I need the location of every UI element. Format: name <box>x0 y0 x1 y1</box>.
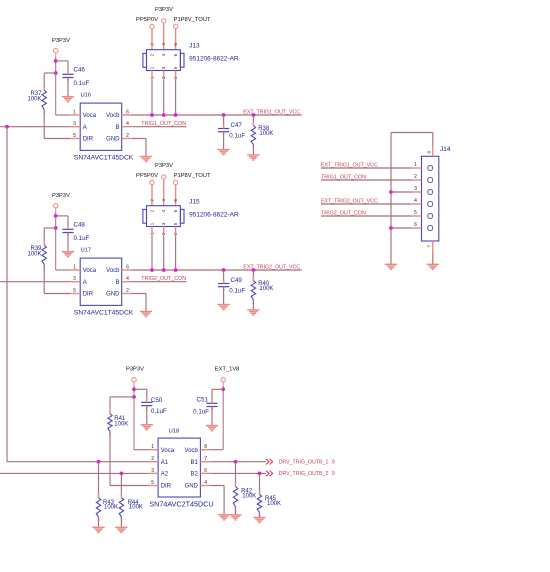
svg-text:5: 5 <box>414 210 417 216</box>
svg-text:DIR: DIR <box>83 292 94 298</box>
svg-text:0.1uF: 0.1uF <box>74 80 90 87</box>
svg-text:0.1uF: 0.1uF <box>229 133 245 140</box>
svg-text:U17: U17 <box>81 247 92 253</box>
svg-text:6: 6 <box>126 110 129 116</box>
svg-text:C49: C49 <box>231 277 243 284</box>
svg-text:Vocb: Vocb <box>106 113 120 119</box>
svg-text:3: 3 <box>73 121 76 127</box>
svg-text:2: 2 <box>126 288 129 294</box>
svg-text:1: 1 <box>150 66 155 69</box>
svg-text:B1: B1 <box>191 460 199 466</box>
svg-text:3: 3 <box>161 222 166 225</box>
svg-text:P3P3V: P3P3V <box>126 367 144 373</box>
svg-text:Vocb: Vocb <box>185 448 199 454</box>
svg-text:EXT_TRIG1_OUT_VCC: EXT_TRIG1_OUT_VCC <box>321 163 378 169</box>
svg-text:1: 1 <box>73 265 76 271</box>
svg-text:5: 5 <box>73 288 76 294</box>
svg-text:A: A <box>83 125 87 131</box>
svg-text:DRV_TRIG_OUTB_1: DRV_TRIG_OUTB_1 <box>279 460 329 466</box>
svg-text:3: 3 <box>73 276 76 282</box>
svg-text:0.1uF: 0.1uF <box>193 408 209 415</box>
svg-text:1: 1 <box>414 162 417 168</box>
svg-text:1: 1 <box>151 444 154 450</box>
svg-text:A2: A2 <box>161 472 169 478</box>
svg-text:0.1uF: 0.1uF <box>151 408 167 415</box>
svg-text:J13: J13 <box>189 43 200 50</box>
svg-text:PP5P0V: PP5P0V <box>136 17 158 23</box>
svg-text:2: 2 <box>414 174 417 180</box>
svg-text:2: 2 <box>150 53 155 56</box>
svg-text:951206-8622-AR: 951206-8622-AR <box>189 56 239 63</box>
svg-text:EXT_1V8: EXT_1V8 <box>215 367 240 373</box>
svg-text:B2: B2 <box>191 472 199 478</box>
svg-text:6: 6 <box>173 53 178 56</box>
svg-text:7: 7 <box>427 245 432 248</box>
svg-text:8: 8 <box>427 151 432 154</box>
svg-text:7: 7 <box>204 456 207 462</box>
svg-text:4: 4 <box>126 276 129 282</box>
svg-text:6: 6 <box>173 43 178 46</box>
svg-text:5: 5 <box>151 480 154 486</box>
svg-text:TRIG2_OUT_CON: TRIG2_OUT_CON <box>141 276 186 282</box>
svg-text:U18: U18 <box>169 428 180 434</box>
svg-text:GND: GND <box>106 292 120 298</box>
svg-text:J14: J14 <box>440 146 451 153</box>
svg-text:100K: 100K <box>27 96 41 102</box>
svg-text:2: 2 <box>150 43 155 46</box>
svg-text:B: B <box>115 125 119 131</box>
svg-text:C48: C48 <box>74 222 86 229</box>
svg-text:100K: 100K <box>259 131 273 137</box>
svg-text:3: 3 <box>414 186 417 192</box>
svg-text:2: 2 <box>150 199 155 202</box>
svg-text:P3P3V: P3P3V <box>52 193 70 199</box>
svg-text:0.1uF: 0.1uF <box>229 288 245 295</box>
svg-text:2: 2 <box>151 456 154 462</box>
svg-text:GND: GND <box>185 484 199 490</box>
svg-text:C47: C47 <box>231 122 243 129</box>
svg-text:1: 1 <box>73 110 76 116</box>
svg-text:DIR: DIR <box>83 137 94 143</box>
svg-text:C51: C51 <box>197 396 209 403</box>
svg-text:SN74AVC2T45DCU: SN74AVC2T45DCU <box>149 500 213 509</box>
svg-text:5: 5 <box>173 222 178 225</box>
svg-text:DIR: DIR <box>161 484 172 490</box>
svg-text:100K: 100K <box>242 494 256 500</box>
svg-text:P3P3V: P3P3V <box>52 38 70 44</box>
svg-text:0.1uF: 0.1uF <box>74 235 90 242</box>
svg-text:6: 6 <box>414 222 417 228</box>
svg-text:4: 4 <box>161 199 166 202</box>
svg-text:4: 4 <box>161 209 166 212</box>
svg-text:TRIG2_OUT_CON: TRIG2_OUT_CON <box>321 211 366 217</box>
svg-text:J15: J15 <box>189 199 200 206</box>
svg-text:100K: 100K <box>267 501 281 507</box>
svg-text:3: 3 <box>161 66 166 69</box>
svg-text:100K: 100K <box>104 505 118 511</box>
svg-text:2: 2 <box>126 133 129 139</box>
svg-text:TRIG1_OUT_CON: TRIG1_OUT_CON <box>141 121 186 127</box>
svg-text:Voca: Voca <box>83 113 97 119</box>
svg-text:9: 9 <box>332 471 335 477</box>
svg-text:P1P8V_TOUT: P1P8V_TOUT <box>174 17 211 23</box>
svg-text:9: 9 <box>332 460 335 466</box>
svg-text:6: 6 <box>204 468 207 474</box>
svg-text:2: 2 <box>150 209 155 212</box>
svg-text:PP5P0V: PP5P0V <box>136 173 158 179</box>
svg-text:SN74AVC1T45DCK: SN74AVC1T45DCK <box>74 310 134 317</box>
svg-text:DRV_TRIG_OUTB_2: DRV_TRIG_OUTB_2 <box>279 471 329 477</box>
svg-text:6: 6 <box>173 199 178 202</box>
svg-text:951206-8622-AR: 951206-8622-AR <box>189 212 239 219</box>
svg-text:6: 6 <box>173 209 178 212</box>
svg-text:C46: C46 <box>74 67 86 74</box>
svg-text:A1: A1 <box>161 460 169 466</box>
svg-text:5: 5 <box>173 66 178 69</box>
svg-text:1: 1 <box>150 222 155 225</box>
svg-text:GND: GND <box>106 137 120 143</box>
svg-text:3: 3 <box>151 468 154 474</box>
svg-text:4: 4 <box>126 121 129 127</box>
svg-text:4: 4 <box>161 53 166 56</box>
svg-text:4: 4 <box>161 43 166 46</box>
svg-text:EXT_TRIG2_OUT_VCC: EXT_TRIG2_OUT_VCC <box>321 199 378 205</box>
svg-text:P1P8V_TOUT: P1P8V_TOUT <box>174 173 211 179</box>
svg-text:P3P3V: P3P3V <box>155 163 173 169</box>
svg-text:SN74AVC1T45DCK: SN74AVC1T45DCK <box>74 155 134 162</box>
svg-text:P3P3V: P3P3V <box>155 7 173 13</box>
svg-text:Voca: Voca <box>161 448 175 454</box>
svg-text:100K: 100K <box>114 421 128 427</box>
svg-text:Vocb: Vocb <box>106 268 120 274</box>
svg-text:8: 8 <box>204 444 207 450</box>
svg-text:100K: 100K <box>129 505 143 511</box>
svg-text:TRIG1_OUT_CON: TRIG1_OUT_CON <box>321 175 366 181</box>
svg-text:U16: U16 <box>81 92 92 98</box>
svg-text:C50: C50 <box>151 397 163 404</box>
svg-text:100K: 100K <box>27 251 41 257</box>
svg-text:B: B <box>115 280 119 286</box>
svg-text:4: 4 <box>204 480 207 486</box>
svg-text:Voca: Voca <box>83 268 97 274</box>
svg-text:5: 5 <box>73 133 76 139</box>
svg-text:A: A <box>83 280 87 286</box>
svg-text:6: 6 <box>126 265 129 271</box>
svg-text:100K: 100K <box>259 286 273 292</box>
svg-text:4: 4 <box>414 198 417 204</box>
